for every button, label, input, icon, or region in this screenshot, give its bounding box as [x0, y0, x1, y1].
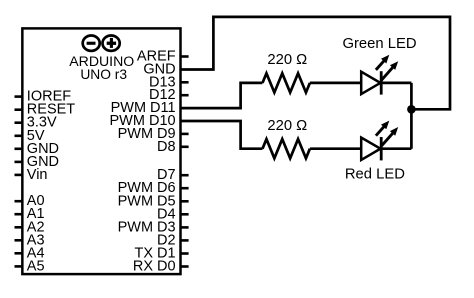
svg-text:Green LED: Green LED	[342, 36, 416, 52]
svg-text:220 Ω: 220 Ω	[267, 52, 307, 68]
svg-text:Red LED: Red LED	[345, 167, 405, 183]
svg-text:D8: D8	[157, 139, 176, 155]
svg-text:220 Ω: 220 Ω	[267, 118, 307, 134]
svg-text:A5: A5	[27, 258, 45, 274]
svg-text:Vin: Vin	[27, 167, 48, 183]
svg-text:RX D0: RX D0	[133, 259, 176, 275]
svg-text:UNO r3: UNO r3	[80, 67, 127, 82]
